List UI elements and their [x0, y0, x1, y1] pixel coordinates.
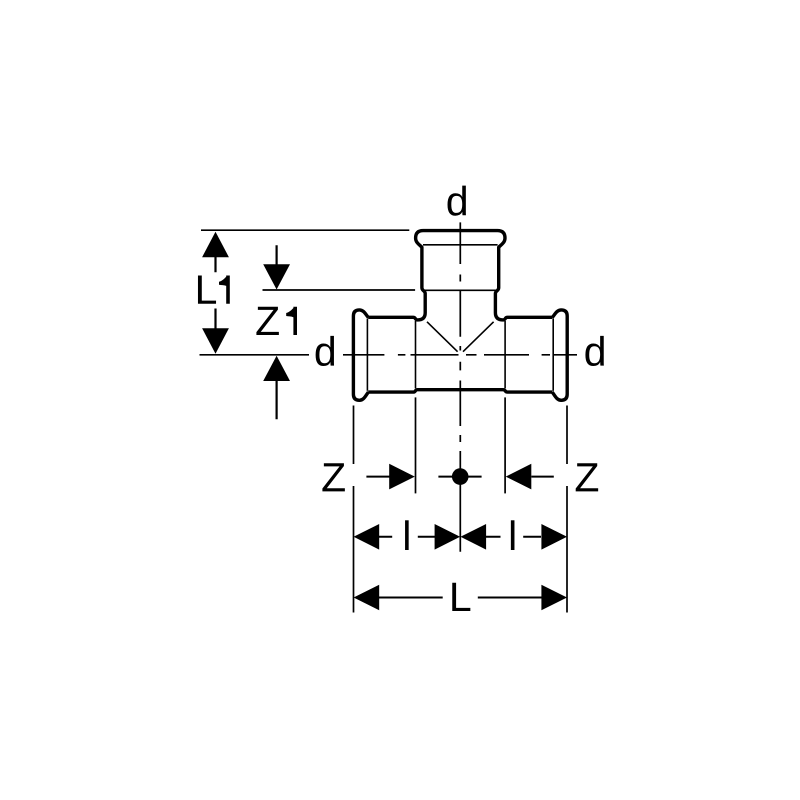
right socket stop line — [504, 321, 506, 389]
label l left — [405, 520, 409, 550]
dimension l left inner arrow — [435, 524, 461, 550]
left socket stop line — [415, 321, 417, 389]
tee fitting upper outline with branch socket — [368, 231, 552, 320]
label L1 glyph L — [198, 275, 216, 303]
left cone junction line — [366, 319, 368, 391]
dimension l right inner arrow — [461, 524, 487, 550]
extension line centerline level left — [200, 354, 310, 356]
dimension L1 upper arrow — [202, 232, 229, 258]
label Z1 glyph 1 — [286, 307, 297, 335]
dimension L right arrow — [541, 585, 567, 611]
center reference dot — [452, 468, 469, 485]
extension line top (bead top level) — [201, 229, 409, 231]
stop extension line right — [504, 397, 506, 493]
label L1 glyph 1 — [219, 276, 230, 304]
horizontal centerline dash segments — [343, 354, 577, 356]
bore intersection diagonal right — [463, 322, 494, 352]
left press bead — [353, 310, 368, 400]
L1 dimension line shafts — [214, 256, 216, 329]
dimension l left outer arrow — [354, 524, 380, 550]
right press bead — [552, 310, 567, 400]
tee fitting bottom outline — [368, 390, 552, 392]
outer extension line left — [353, 406, 355, 613]
outer extension line right — [566, 406, 568, 613]
stop extension line left — [415, 397, 417, 493]
vertical centerline dash segments — [459, 222, 461, 551]
label Z right — [576, 463, 598, 491]
dimension l right outer arrow — [541, 524, 567, 550]
label d left — [316, 336, 334, 366]
label l right — [511, 520, 515, 550]
L dimension lines — [379, 597, 542, 599]
label Z1 glyph Z — [256, 307, 278, 335]
label d top — [448, 186, 466, 216]
extension line branch stop level — [263, 289, 416, 291]
label L bottom — [452, 583, 470, 611]
l dimension lines — [379, 536, 542, 538]
dimension Z1 lower arrow — [263, 356, 290, 381]
right cone junction line — [552, 319, 554, 391]
dimension Z left arrow — [389, 464, 415, 490]
bore intersection diagonal left — [427, 322, 458, 352]
dimension L left arrow — [354, 585, 380, 611]
branch socket stop line — [424, 289, 497, 291]
dimension Z1 upper arrow — [263, 264, 290, 289]
label Z left — [322, 463, 344, 491]
Z1 dimension line shafts — [276, 245, 278, 419]
dimension L1 lower arrow — [202, 328, 229, 354]
dimension Z right arrow — [506, 464, 532, 490]
branch cone junction line — [423, 244, 498, 246]
Z dimension lines — [366, 476, 553, 478]
label d right — [585, 336, 603, 366]
